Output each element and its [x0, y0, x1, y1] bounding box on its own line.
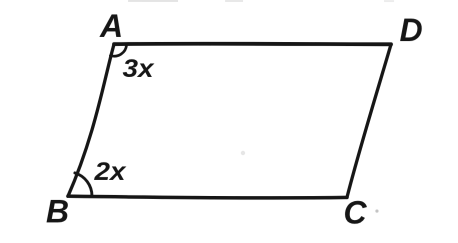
svg-text:B: B [46, 194, 69, 230]
svg-text:D: D [400, 12, 423, 48]
svg-text:C: C [343, 195, 367, 231]
svg-text:2x: 2x [93, 158, 126, 186]
svg-text:3x: 3x [123, 55, 155, 83]
svg-text:A: A [99, 8, 123, 44]
